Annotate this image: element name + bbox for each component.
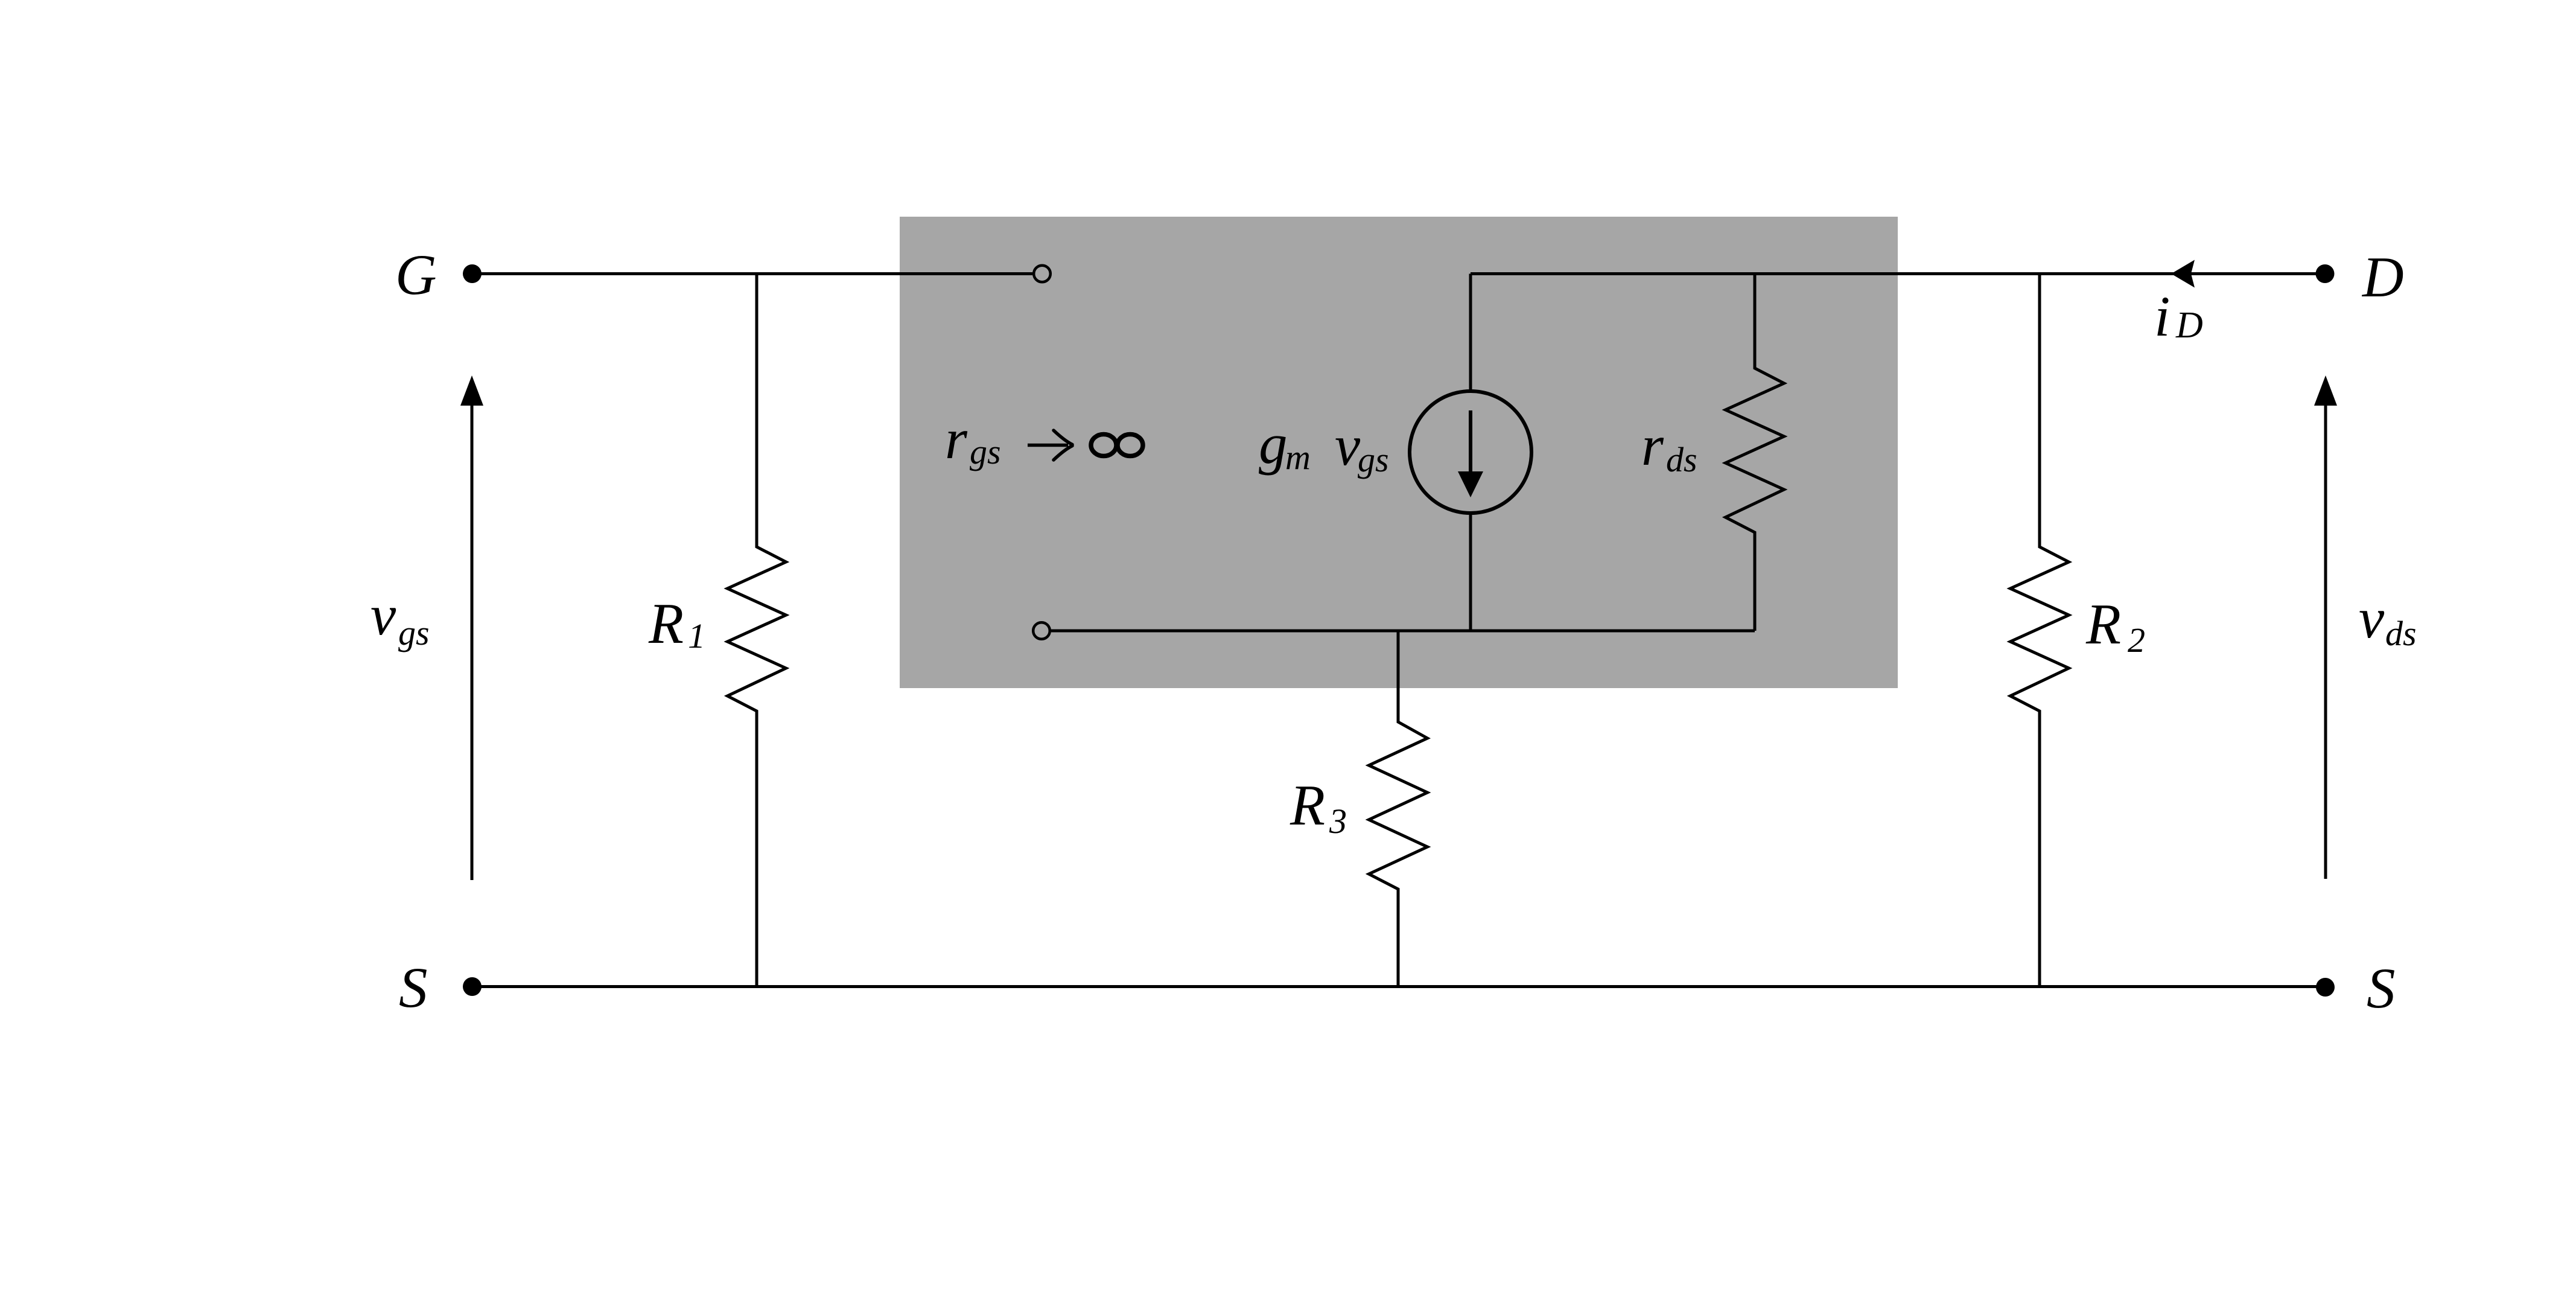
MOSFET small-signal model box [900,217,1898,688]
node S right [2316,978,2335,997]
resistor R1 [728,274,786,987]
dependent current source g_m v_gs [1469,274,1472,392]
source terminal open circle [1033,622,1050,639]
node S left [463,977,482,996]
resistor R2 [2011,274,2069,987]
arrow glyph of r_gs -> infinity [1028,444,1068,447]
svg-text:D: D [2361,245,2404,309]
node D [2316,264,2335,283]
infinity glyph [1091,435,1143,456]
svg-text:S: S [2367,956,2396,1020]
wire G to gate terminal [472,272,1032,275]
voltage arrow v_gs [471,389,474,880]
resistor r_ds [1726,274,1784,631]
svg-text:G: G [395,243,437,307]
wire source rail inside box [1051,630,1755,633]
voltage arrow v_ds [2324,389,2327,879]
node G [463,264,482,283]
wire bottom rail S to S [472,985,2325,988]
gate terminal open circle [1034,266,1051,282]
resistor R3 [1369,631,1428,987]
current arrow i_D on drain wire [2171,260,2195,288]
svg-text:S: S [399,955,428,1019]
wire top-right rail (drain side) [1471,272,2325,275]
